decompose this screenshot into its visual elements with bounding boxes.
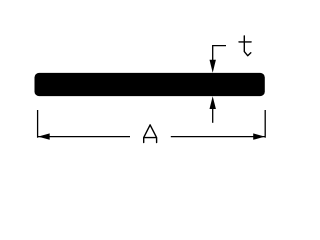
t top arrow (down)	[210, 60, 216, 73]
label t	[239, 36, 251, 56]
left arrowhead	[38, 133, 50, 139]
left extension line	[37, 110, 39, 138]
label A	[144, 125, 157, 143]
flat bar cross-section	[35, 73, 265, 96]
dimension line A right segment	[171, 136, 265, 138]
t leader top bend	[213, 46, 226, 63]
dimension line A left segment	[38, 136, 130, 138]
t bottom arrow (up)	[210, 96, 216, 109]
right arrowhead	[253, 133, 265, 139]
t bottom leader line	[212, 106, 214, 123]
right extension line	[264, 110, 266, 138]
